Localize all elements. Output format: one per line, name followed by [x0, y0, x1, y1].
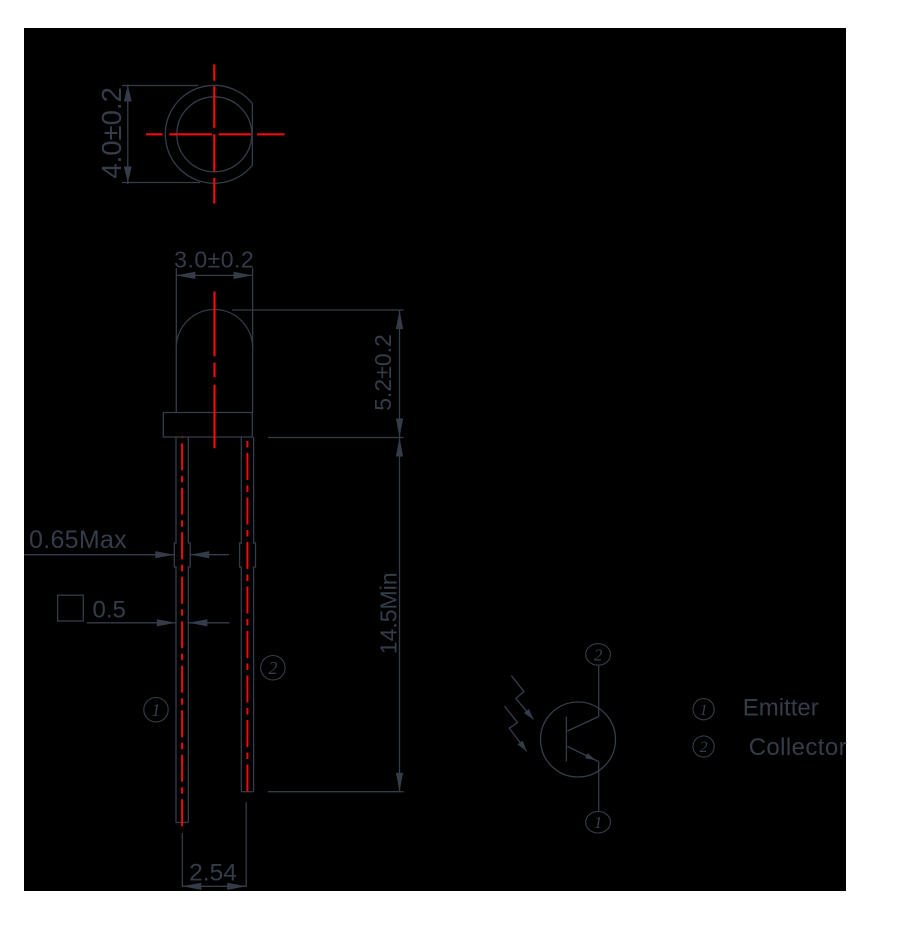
lead 2 left edge with jog	[240, 437, 242, 792]
dim 4.0 dimension line	[127, 85, 129, 185]
svg-text:1: 1	[700, 702, 708, 719]
dim 3.0 dimension line	[176, 274, 252, 276]
svg-text:Collector: Collector	[749, 734, 847, 761]
svg-text:Emitter: Emitter	[743, 695, 819, 722]
svg-text:14.5Min: 14.5Min	[375, 572, 401, 654]
svg-text:0.65Max: 0.65Max	[29, 526, 127, 554]
dim 2.54 arrow left	[182, 883, 201, 890]
dim 2.54 arrow right	[227, 883, 246, 890]
lead 1 right edge with jog	[188, 437, 190, 823]
phototransistor symbol envelope circle	[541, 702, 616, 777]
top view: inner epoxy circle	[177, 97, 252, 172]
dim 0.65 arrow right	[155, 551, 174, 558]
light arrow 2 zigzag	[505, 706, 527, 751]
dim 14.5 arrow down	[396, 773, 403, 792]
dim 2.54 extension line right	[245, 802, 247, 887]
front view package centerline	[213, 292, 215, 449]
emitter diagonal	[568, 747, 599, 762]
legend pin 1 circle	[693, 699, 714, 720]
top view vertical centerline	[213, 65, 215, 204]
top view horizontal centerline	[146, 133, 285, 135]
dim 5.2 arrow up	[396, 310, 403, 329]
dim 5.2 extension line (dome top)	[232, 309, 404, 311]
dim 5.2/14.5 extension line (flange bottom)	[268, 437, 404, 439]
dim 5.2 dimension line	[399, 310, 401, 438]
pin 2 label circle	[261, 656, 285, 680]
pin 1 label circle	[144, 698, 168, 722]
dim 14.5 dimension line	[399, 438, 401, 792]
front view: flange rectangle	[163, 413, 252, 438]
dim 2.54 dimension line	[182, 885, 246, 887]
svg-text:2: 2	[700, 739, 708, 756]
dim 4.0 arrow up	[124, 86, 132, 102]
dim 5.2 arrow down	[396, 419, 403, 438]
front view: right side / dim 3.0 extension right	[252, 268, 254, 349]
dim 2.54 extension line left	[181, 833, 183, 887]
dim 3.0 arrow left	[176, 272, 195, 279]
svg-text:0.5: 0.5	[93, 597, 126, 624]
dim 0.5 arrow right	[157, 619, 176, 626]
lead 1 left edge with jog	[174, 437, 176, 823]
dim 0.65 arrow left	[190, 551, 209, 558]
collector diagonal	[568, 717, 599, 732]
lead 1 centerline	[181, 437, 183, 826]
transistor base bar	[565, 717, 567, 762]
svg-text:1: 1	[594, 813, 603, 832]
dim 0.65 leader line right	[190, 554, 229, 556]
collector wire to pin 2	[598, 666, 600, 717]
light arrow 2 arrowhead	[518, 741, 527, 752]
svg-text:2.54: 2.54	[189, 860, 237, 887]
dim 0.5 leader line right	[188, 622, 229, 624]
svg-text:2: 2	[268, 658, 277, 678]
svg-text:1: 1	[152, 700, 161, 720]
dim 4.0 extension line top	[122, 85, 198, 87]
emitter arrowhead	[585, 753, 596, 760]
dim 4.0 extension line bottom	[122, 182, 200, 184]
node 1 circle (emitter pin)	[586, 811, 611, 833]
light arrow 1 zigzag	[511, 676, 533, 720]
top view: outer flange circle with flat	[165, 85, 252, 183]
svg-text:4.0±0.2: 4.0±0.2	[96, 87, 127, 179]
lead 2 bottom end	[241, 791, 253, 793]
lead 2 centerline	[246, 441, 248, 792]
front view: epoxy dome arc	[176, 309, 252, 412]
light arrow 1 arrowhead	[524, 709, 534, 720]
dim 14.5 arrow up	[396, 438, 403, 457]
front view: left side / dim 3.0 extension left	[175, 268, 177, 349]
emitter wire to pin 1	[598, 762, 600, 811]
dim 0.5 arrow left	[188, 619, 207, 626]
lead 1 bottom end	[176, 822, 188, 824]
dim 0.5 leader line left	[87, 622, 176, 624]
node 2 circle (collector pin)	[586, 644, 611, 666]
svg-text:2: 2	[594, 645, 603, 664]
dim 14.5 extension line (lead end)	[268, 791, 404, 793]
dim 0.65 leader line left	[24, 554, 174, 556]
dim 0.5 square symbol	[58, 595, 84, 621]
lead 2 right edge with jog	[254, 437, 256, 792]
svg-text:3.0±0.2: 3.0±0.2	[174, 247, 254, 273]
dim 3.0 arrow right	[234, 272, 253, 279]
svg-text:5.2±0.2: 5.2±0.2	[370, 334, 396, 411]
dim 4.0 arrow down	[124, 167, 132, 183]
legend pin 2 circle	[693, 736, 714, 757]
